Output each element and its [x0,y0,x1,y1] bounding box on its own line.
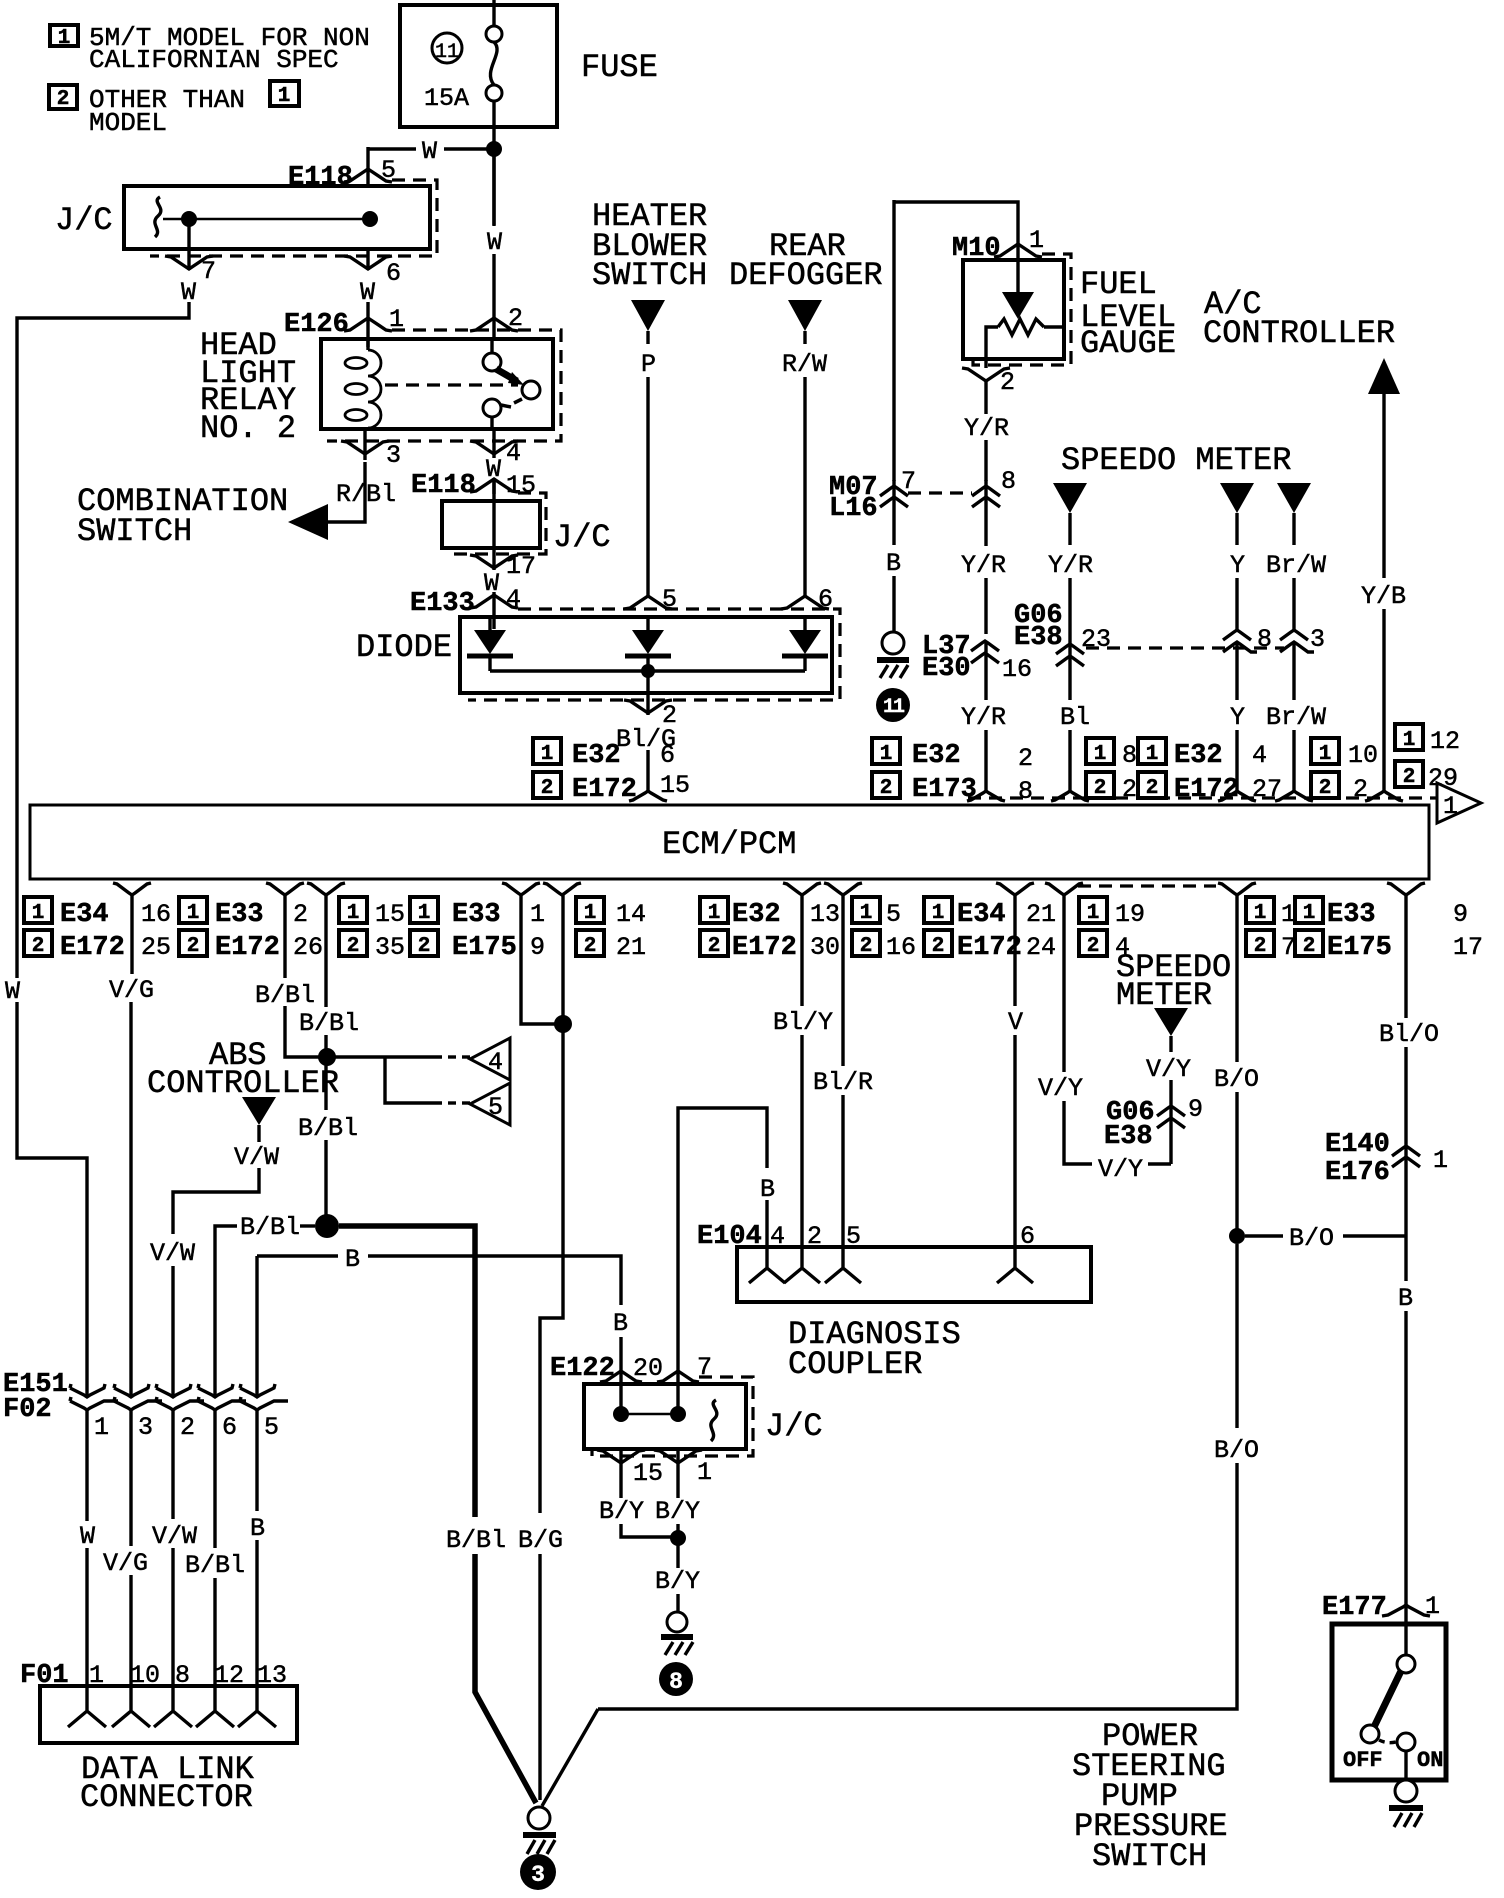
svg-text:1: 1 [1425,1592,1440,1621]
svg-text:V/Y: V/Y [1146,1055,1191,1084]
DLC pin 8 [154,1686,192,1727]
branch to instrument cluster 4/5 [335,1057,470,1103]
diode D3 [782,617,828,671]
diagnosis coupler B wire loop [678,1108,775,1373]
svg-text:E30: E30 [922,654,971,684]
relay internal dashed link [385,383,518,386]
svg-text:21: 21 [616,933,646,962]
svg-text:2: 2 [1018,744,1033,773]
svg-text:V/Y: V/Y [1038,1074,1083,1103]
svg-text:30: 30 [810,933,840,962]
ECM bottom chevron V/Y wire [1045,883,1083,895]
ECM top chevron Bl wire [1051,791,1089,801]
svg-text:16: 16 [141,900,171,929]
svg-text:6: 6 [222,1413,237,1442]
svg-text:4: 4 [1252,741,1267,770]
svg-text:1: 1 [187,902,200,925]
wire B/Bl 2 [298,895,359,1226]
diode output junction [641,664,655,678]
svg-text:V/W: V/W [150,1239,195,1268]
heater blower switch feed [592,198,707,598]
wire B from gauge feed down [892,200,895,481]
ground G8 symbol [661,1612,693,1655]
svg-text:FUEL: FUEL [1080,266,1157,303]
svg-text:23: 23 [1081,625,1111,654]
svg-text:17: 17 [506,552,536,581]
svg-text:P: P [641,350,656,379]
junction node B/Y [670,1530,686,1546]
svg-text:8: 8 [669,1669,683,1695]
junction node at fuse output [486,141,502,157]
diagonal to ground G3 [542,1709,598,1806]
ground for E177 [1389,1780,1423,1827]
svg-text:19: 19 [1115,900,1145,929]
svg-text:E172: E172 [1174,775,1239,805]
coupler pin 4 [749,1247,785,1283]
svg-text:W: W [484,569,499,598]
svg-text:2: 2 [347,935,360,958]
svg-text:W: W [487,228,502,257]
svg-text:Bl: Bl [1060,703,1090,732]
svg-text:9: 9 [1453,900,1468,929]
cluster triangle 4 [470,1038,510,1080]
legend note 1 [50,23,370,75]
svg-text:1: 1 [584,902,597,925]
svg-text:B/Y: B/Y [655,1567,700,1596]
svg-text:W: W [422,137,437,166]
svg-text:B: B [760,1175,775,1204]
svg-text:SPEEDO METER: SPEEDO METER [1061,442,1291,479]
B/Bl label link to E151 wire [215,1213,315,1397]
svg-text:SWITCH: SWITCH [1092,1838,1207,1875]
ECM pin labels B/Bl wire 1 [179,897,323,963]
coupler pin 5 [825,1247,861,1283]
svg-text:B: B [250,1514,265,1543]
svg-text:1: 1 [1146,743,1159,766]
svg-text:E172: E172 [215,933,280,963]
svg-text:E32: E32 [572,741,621,771]
ECM top dashed line [968,796,1437,799]
svg-text:MODEL: MODEL [89,108,167,138]
svg-text:V: V [1008,1008,1023,1037]
svg-text:Y: Y [1230,551,1245,580]
inline connector L37/E30 pin 16 [922,632,1032,792]
ECM bottom chevron Bl/R wire [824,883,862,895]
svg-text:5: 5 [488,1093,503,1122]
svg-text:CONTROLLER: CONTROLLER [1203,315,1395,352]
svg-text:E34: E34 [957,900,1006,930]
svg-text:3: 3 [531,1862,545,1888]
speedo meter (top) [1061,442,1291,479]
wire W to E118 pin 5 [368,137,489,171]
connector E133 pin 6 [781,585,833,614]
svg-text:B/Bl: B/Bl [185,1551,245,1580]
ground ref 8 [659,1662,693,1696]
ECM pin labels B/O wire [1246,897,1296,962]
svg-text:E33: E33 [215,900,264,930]
svg-text:J/C: J/C [553,519,611,556]
junction node B/Bl [318,1048,336,1066]
svg-text:1: 1 [708,902,721,925]
svg-text:35: 35 [375,933,405,962]
ECM bottom chevron V wire [996,883,1034,895]
svg-text:2: 2 [57,88,70,111]
diode box pin 2 output [616,671,677,792]
power steering pump pressure switch E177 [1332,1624,1446,1781]
connector F01 labels [20,1661,287,1691]
svg-text:E176: E176 [1325,1158,1390,1188]
svg-text:CONNECTOR: CONNECTOR [80,1779,253,1816]
svg-text:E172: E172 [572,775,637,805]
svg-text:Br/W: Br/W [1266,703,1326,732]
svg-text:E38: E38 [1104,1122,1153,1152]
svg-text:1: 1 [1087,902,1100,925]
ECM bottom dashed line [1078,884,1216,887]
fuel gauge pin 2 [962,368,1015,481]
svg-text:16: 16 [886,933,916,962]
ECM bottom chevron B/O wire [1218,883,1256,895]
cluster triangle 5 [470,1083,510,1125]
ECM pin labels V/G wire [24,897,171,963]
svg-text:26: 26 [293,933,323,962]
svg-text:1: 1 [860,902,873,925]
svg-text:W: W [80,1522,95,1551]
connector E118 pin 15 [411,471,536,501]
svg-text:1: 1 [530,900,545,929]
svg-text:E32: E32 [912,741,961,771]
svg-text:2: 2 [1303,935,1316,958]
wire B horizontal run [257,1245,628,1397]
fuse F11 15A [400,0,658,127]
speedo meter (lower) [1116,949,1231,1164]
svg-text:8: 8 [1122,741,1137,770]
svg-text:F02: F02 [3,1395,52,1425]
svg-text:5: 5 [264,1413,279,1442]
svg-text:E32: E32 [732,900,781,930]
svg-text:J/C: J/C [765,1408,823,1445]
svg-text:2: 2 [584,935,597,958]
J/C pin 7 [165,219,216,307]
ECM bottom chevron Bl/Y wire [783,883,821,895]
svg-text:Y/R: Y/R [961,551,1006,580]
ECM pin labels Bl wire and Y wire [1086,738,1282,805]
ECM pin labels 14/21 [576,897,646,962]
ECM top chevron Y/B wire [1365,791,1403,801]
svg-text:2: 2 [860,935,873,958]
E122 pin 1 [654,1449,712,1568]
wire Bl/Y to diagnosis coupler pin 2 [773,895,833,1247]
svg-text:Y/R: Y/R [1048,551,1093,580]
svg-text:2: 2 [32,935,45,958]
ECM pin labels E33-1/E175-9 [410,897,545,963]
svg-text:E175: E175 [1327,933,1392,963]
speedo meter wire 2 (Y) [1220,483,1272,792]
legend note 2 [49,81,299,138]
connector E133 pin 5 [624,585,677,614]
svg-text:2: 2 [880,777,893,800]
svg-text:B/Y: B/Y [655,1497,700,1526]
svg-text:OFF: OFF [1343,1748,1383,1773]
svg-text:1: 1 [1403,729,1416,752]
svg-text:B/Bl: B/Bl [240,1213,300,1242]
ECM bottom chevron Bl/O wire [1387,883,1425,895]
svg-text:E172: E172 [60,933,125,963]
svg-text:B/O: B/O [1214,1065,1259,1094]
svg-text:E126: E126 [284,310,349,340]
svg-text:1: 1 [1443,792,1458,821]
svg-text:SWITCH: SWITCH [592,257,707,294]
svg-text:20: 20 [633,1354,663,1383]
svg-text:B/Y: B/Y [599,1497,644,1526]
svg-text:B: B [345,1245,360,1274]
svg-text:ECM/PCM: ECM/PCM [662,826,796,863]
svg-text:2: 2 [932,935,945,958]
svg-text:17: 17 [1453,933,1483,962]
svg-text:1: 1 [418,902,431,925]
svg-text:E32: E32 [1174,741,1223,771]
svg-text:4: 4 [488,1048,503,1077]
svg-text:2: 2 [541,777,554,800]
ECM top chevron Y/R wire [967,791,1005,801]
svg-text:B/Bl: B/Bl [255,981,315,1010]
ECM bottom chevron V/G wire [113,883,151,895]
svg-text:CALIFORNIAN SPEC: CALIFORNIAN SPEC [89,45,339,75]
ECM pin labels Bl/Y wire [700,897,840,963]
DLC pin 13 [238,1686,276,1727]
svg-text:GAUGE: GAUGE [1080,325,1176,362]
svg-text:B/O: B/O [1214,1436,1259,1465]
ECM bottom chevron B/G branch wire [502,883,540,895]
svg-text:9: 9 [1188,1095,1203,1124]
E122 pin 15 [597,1449,671,1537]
svg-text:2: 2 [1254,935,1267,958]
svg-text:Y/R: Y/R [961,703,1006,732]
svg-text:1: 1 [541,743,554,766]
speedo meter wire 1 (Y/R to Bl) [1048,483,1093,632]
ECM/PCM box [30,805,1429,879]
svg-text:ON: ON [1417,1748,1443,1773]
svg-text:E118: E118 [411,471,476,501]
wire B/O down to power steering line [598,1244,1259,1709]
ground ref 11 [876,688,910,722]
relay pin 3 [336,429,401,509]
svg-text:3: 3 [1310,625,1325,654]
connector E126 pin 2 [470,304,523,353]
wire from fuse to junction [492,127,495,225]
connector E104 labels [697,1222,1035,1252]
ECM edge connector 1 triangle [1437,783,1481,823]
dashed link G06/E38 pins [1086,646,1284,649]
relay coil [345,339,381,429]
wire W from pin7 to left edge and down [5,302,189,1397]
relay pin 4 [470,429,521,494]
speedo meter wire 3 (Br/W) [1266,483,1326,792]
connector E122 pin 20 [550,1354,663,1414]
wire W fuse to E126 pin 2 [487,155,502,320]
svg-text:11: 11 [883,696,905,719]
power steering pump pressure switch label [1072,1718,1228,1875]
B/O link to Bl/O wire [1245,1224,1406,1253]
svg-text:2: 2 [187,935,200,958]
J/C pin 17 [470,548,536,598]
svg-text:2: 2 [180,1413,195,1442]
svg-text:Y/B: Y/B [1361,582,1406,611]
svg-text:DEFOGGER: DEFOGGER [729,257,883,294]
bold junction node B/Bl [315,1214,339,1238]
svg-text:12: 12 [1430,727,1460,756]
svg-text:Bl/R: Bl/R [813,1068,873,1097]
connector E118 pin 5 [288,156,396,193]
wire to combination switch [328,462,365,522]
ECM pin labels B/Bl wire 2 [339,897,405,962]
svg-text:1: 1 [1319,743,1332,766]
svg-text:11: 11 [435,41,459,64]
svg-text:13: 13 [810,900,840,929]
wire B/Bl 1 to junction [255,895,320,1057]
E151/F02 pin 6 [185,1384,246,1686]
svg-text:8: 8 [1001,467,1016,496]
svg-text:B/Bl: B/Bl [446,1526,506,1555]
svg-text:4: 4 [506,439,521,468]
ECM pin labels Y/R wire [872,738,1033,806]
connector E133 pin 4 [410,585,521,629]
junction node B/O [1229,1228,1245,1244]
svg-text:16: 16 [1002,655,1032,684]
svg-text:E34: E34 [60,900,109,930]
svg-text:7: 7 [201,257,216,286]
svg-text:1: 1 [1029,226,1044,255]
junction connector J/C box (E122) [584,1377,823,1456]
svg-text:B: B [1398,1284,1413,1313]
svg-text:Y/R: Y/R [964,414,1009,443]
E151/F02 pin 1 [70,1384,118,1686]
diode box (E133) [356,609,840,700]
ECM top chevron Y wire [1218,791,1256,801]
svg-text:COUPLER: COUPLER [788,1346,922,1383]
svg-text:B/Bl: B/Bl [298,1114,358,1143]
svg-text:24: 24 [1026,933,1056,962]
wire B/G to ground [518,895,563,1800]
svg-text:B/G: B/G [518,1526,563,1555]
connector E126 pin 1 [284,305,404,347]
wire Bl/R to diagnosis coupler pin 5 [813,895,873,1247]
ECM pin labels Y/B wire [1395,724,1460,793]
svg-text:2: 2 [1087,935,1100,958]
svg-text:8: 8 [1018,777,1033,806]
connector E122 pin 7 [657,1353,712,1414]
svg-text:E38: E38 [1014,623,1063,653]
junction node B/G [554,1015,572,1033]
svg-text:FUSE: FUSE [581,49,658,86]
coupler pin 2 [784,1247,820,1283]
rear defogger feed [729,228,883,598]
DLC pin 12 [196,1686,234,1727]
inline connector E151/F02 labels [3,1370,68,1425]
svg-text:1: 1 [1254,902,1267,925]
svg-text:E133: E133 [410,589,475,619]
svg-text:9: 9 [530,933,545,962]
svg-text:15: 15 [375,900,405,929]
wire V/G to data link connector [109,895,154,1397]
svg-text:2: 2 [1000,368,1015,397]
svg-text:1: 1 [347,902,360,925]
svg-text:1: 1 [1303,902,1316,925]
J/C pin 6 [344,249,401,319]
combination switch arrow [77,483,328,550]
ground G3 symbol [523,1807,556,1854]
E151/F02 pin 2 [152,1384,204,1686]
svg-text:15A: 15A [424,84,469,113]
svg-text:1: 1 [697,1458,712,1487]
svg-text:J/C: J/C [55,202,113,239]
svg-text:NO. 2: NO. 2 [200,410,296,447]
ECM pin labels Bl/R wire [852,897,916,962]
svg-text:6: 6 [386,259,401,288]
svg-text:21: 21 [1026,900,1056,929]
A/C controller feed [1203,286,1406,792]
wire V/Y from ECM [1038,895,1171,1184]
svg-text:SWITCH: SWITCH [77,513,192,550]
svg-text:2: 2 [708,935,721,958]
svg-text:E33: E33 [452,900,501,930]
svg-text:5: 5 [886,900,901,929]
diode D2 [625,617,671,671]
connector E177 pin 1 [1322,1592,1440,1656]
svg-text:E33: E33 [1327,900,1376,930]
svg-text:1: 1 [1433,1146,1448,1175]
svg-text:E118: E118 [288,163,353,193]
svg-text:6: 6 [660,741,675,770]
inline connector G06/E38 pin 23 [1014,601,1111,792]
diagnosis coupler box [737,1247,1091,1383]
svg-text:25: 25 [141,933,171,962]
coupler pin 6 [997,1247,1033,1283]
ground for B wire [877,632,909,678]
svg-text:1: 1 [278,85,291,108]
svg-text:Br/W: Br/W [1266,551,1326,580]
svg-text:2: 2 [1122,775,1137,804]
ECM pin labels for Bl/G wire [533,738,690,805]
svg-text:V/W: V/W [152,1522,197,1551]
svg-text:1: 1 [94,1413,109,1442]
ECM top chevron Br/W wire [1275,791,1313,801]
data link connector box [40,1686,297,1816]
svg-text:14: 14 [616,900,646,929]
svg-text:2: 2 [1403,766,1416,789]
svg-text:E175: E175 [452,933,517,963]
svg-text:E140: E140 [1325,1130,1390,1160]
DLC pin 1 [68,1686,106,1727]
svg-text:E177: E177 [1322,1593,1387,1623]
ECM pin labels V/Y wire [1079,897,1145,962]
svg-text:B/Bl: B/Bl [299,1009,359,1038]
svg-text:L16: L16 [829,494,878,524]
wire Bl/O down [1379,895,1439,1049]
svg-text:V/G: V/G [103,1549,148,1578]
svg-text:V/W: V/W [234,1143,279,1172]
svg-text:Bl/O: Bl/O [1379,1020,1439,1049]
svg-text:V/G: V/G [109,976,154,1005]
ECM pin labels V wire [924,897,1056,963]
svg-text:E172: E172 [957,933,1022,963]
ECM pin labels Bl/O wire [1295,897,1483,963]
svg-text:1: 1 [880,743,893,766]
svg-text:Y: Y [1230,703,1245,732]
ECM top chevron for Bl/G wire [629,791,667,801]
fuel level gauge M10 [894,202,1176,368]
svg-text:15: 15 [506,471,536,500]
svg-text:3: 3 [386,441,401,470]
